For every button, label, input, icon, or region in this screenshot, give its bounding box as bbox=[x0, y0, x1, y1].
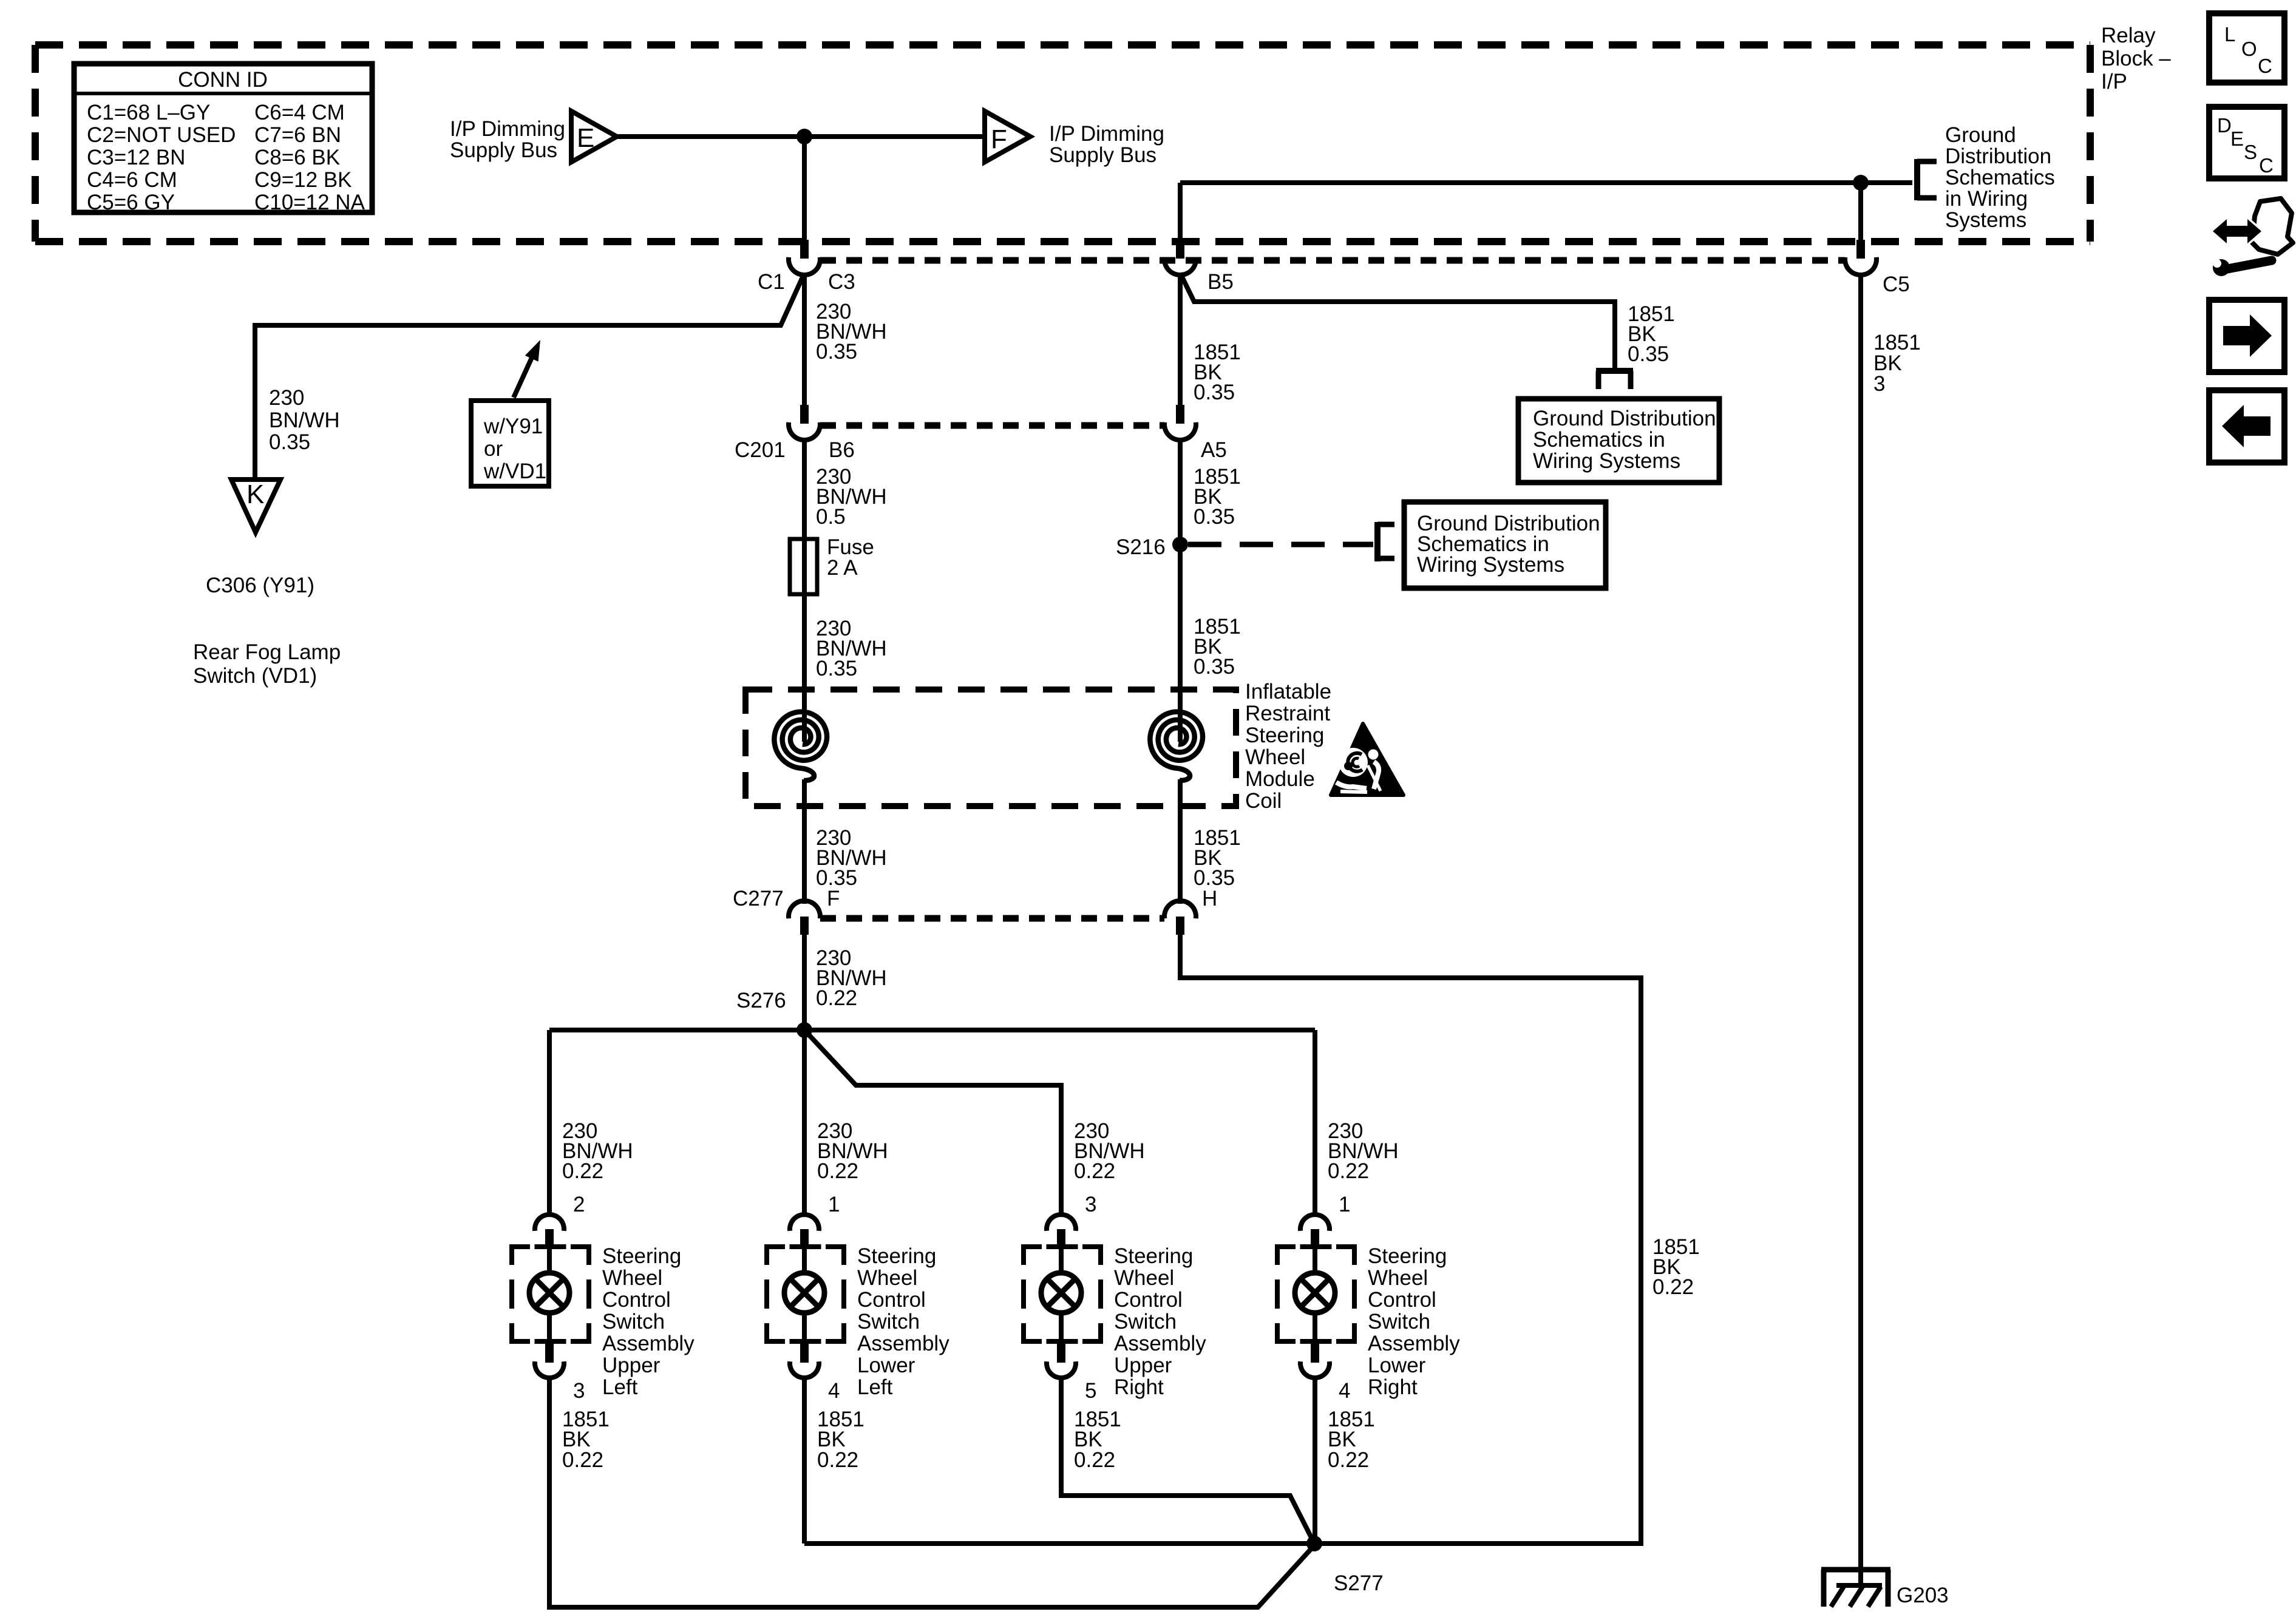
svg-text:0.22: 0.22 bbox=[817, 1448, 858, 1472]
svg-text:C4=6 CM: C4=6 CM bbox=[87, 168, 177, 192]
svg-text:Supply Bus: Supply Bus bbox=[450, 138, 557, 162]
svg-text:3: 3 bbox=[1873, 372, 1885, 396]
svg-text:0.22: 0.22 bbox=[816, 986, 857, 1010]
svg-text:Block –: Block – bbox=[2101, 47, 2171, 70]
svg-text:E: E bbox=[2230, 127, 2244, 150]
svg-text:S276: S276 bbox=[736, 989, 786, 1012]
svg-text:Lower: Lower bbox=[857, 1354, 915, 1377]
svg-text:Assembly: Assembly bbox=[1114, 1332, 1206, 1355]
svg-text:I/P Dimming: I/P Dimming bbox=[450, 117, 565, 141]
svg-text:Left: Left bbox=[602, 1375, 638, 1399]
svg-text:0.35: 0.35 bbox=[1628, 342, 1669, 366]
svg-text:Schematics: Schematics bbox=[1945, 166, 2055, 189]
svg-text:C277: C277 bbox=[733, 887, 784, 910]
svg-text:Rear Fog Lamp: Rear Fog Lamp bbox=[193, 640, 341, 664]
svg-text:C: C bbox=[2258, 55, 2272, 77]
svg-text:I/P Dimming: I/P Dimming bbox=[1049, 122, 1164, 146]
svg-text:0.22: 0.22 bbox=[1074, 1448, 1115, 1472]
svg-text:Wheel: Wheel bbox=[857, 1266, 917, 1290]
svg-text:Switch (VD1): Switch (VD1) bbox=[193, 664, 317, 688]
svg-text:Lower: Lower bbox=[1368, 1354, 1426, 1377]
svg-text:Control: Control bbox=[1114, 1288, 1183, 1312]
svg-text:S277: S277 bbox=[1334, 1571, 1384, 1595]
svg-text:C9=12 BK: C9=12 BK bbox=[254, 168, 352, 192]
svg-text:3: 3 bbox=[573, 1379, 585, 1403]
svg-text:C7=6 BN: C7=6 BN bbox=[254, 123, 341, 147]
svg-text:B6: B6 bbox=[829, 438, 855, 462]
svg-text:Switch: Switch bbox=[1114, 1310, 1177, 1334]
svg-text:Steering: Steering bbox=[857, 1244, 936, 1268]
svg-text:C306 (Y91): C306 (Y91) bbox=[206, 574, 314, 597]
svg-text:0.22: 0.22 bbox=[817, 1159, 858, 1183]
svg-text:Supply Bus: Supply Bus bbox=[1049, 143, 1156, 167]
svg-text:F: F bbox=[827, 887, 840, 910]
svg-text:Steering: Steering bbox=[1245, 724, 1324, 747]
svg-text:Right: Right bbox=[1368, 1375, 1418, 1399]
svg-text:in Wiring: in Wiring bbox=[1945, 187, 2028, 211]
svg-text:C201: C201 bbox=[735, 438, 786, 462]
svg-text:Ground: Ground bbox=[1945, 123, 2016, 147]
svg-text:CONN ID: CONN ID bbox=[178, 68, 268, 92]
svg-text:4: 4 bbox=[828, 1379, 840, 1403]
svg-text:2 A: 2 A bbox=[827, 556, 858, 580]
svg-text:Relay: Relay bbox=[2101, 24, 2156, 47]
svg-text:C: C bbox=[2259, 154, 2274, 177]
svg-text:Switch: Switch bbox=[602, 1310, 665, 1334]
svg-text:C3=12 BN: C3=12 BN bbox=[87, 146, 185, 169]
svg-text:230: 230 bbox=[269, 386, 304, 410]
svg-text:C10=12 NA: C10=12 NA bbox=[254, 191, 365, 214]
svg-text:E: E bbox=[577, 123, 594, 153]
svg-text:2: 2 bbox=[573, 1193, 585, 1216]
svg-text:0.5: 0.5 bbox=[816, 505, 846, 529]
svg-text:4: 4 bbox=[1339, 1379, 1350, 1403]
svg-text:3: 3 bbox=[1085, 1193, 1096, 1216]
svg-text:C3: C3 bbox=[828, 270, 855, 294]
svg-text:S216: S216 bbox=[1116, 535, 1166, 559]
svg-text:Assembly: Assembly bbox=[1368, 1332, 1460, 1355]
svg-text:0.22: 0.22 bbox=[1328, 1159, 1369, 1183]
svg-text:Wiring Systems: Wiring Systems bbox=[1417, 553, 1564, 577]
svg-text:Assembly: Assembly bbox=[857, 1332, 949, 1355]
svg-text:C1: C1 bbox=[758, 270, 785, 294]
svg-text:I/P: I/P bbox=[2101, 70, 2127, 93]
svg-text:0.35: 0.35 bbox=[816, 340, 857, 364]
svg-text:Upper: Upper bbox=[602, 1354, 661, 1377]
svg-text:Coil: Coil bbox=[1245, 789, 1282, 813]
svg-text:Systems: Systems bbox=[1945, 208, 2026, 232]
svg-text:Wheel: Wheel bbox=[1245, 745, 1305, 769]
svg-text:0.22: 0.22 bbox=[1074, 1159, 1115, 1183]
svg-text:w/Y91: w/Y91 bbox=[483, 415, 543, 438]
svg-text:L: L bbox=[2224, 23, 2235, 46]
svg-text:G203: G203 bbox=[1897, 1584, 1949, 1607]
svg-text:Control: Control bbox=[857, 1288, 926, 1312]
svg-text:S: S bbox=[2244, 141, 2257, 163]
svg-text:0.35: 0.35 bbox=[269, 430, 310, 454]
svg-text:Steering: Steering bbox=[1114, 1244, 1193, 1268]
svg-text:O: O bbox=[2241, 38, 2257, 60]
svg-text:Restraint: Restraint bbox=[1245, 702, 1330, 725]
svg-text:0.35: 0.35 bbox=[1194, 655, 1235, 679]
svg-text:0.22: 0.22 bbox=[1652, 1275, 1694, 1299]
svg-text:BN/WH: BN/WH bbox=[269, 408, 340, 432]
svg-text:B5: B5 bbox=[1207, 270, 1234, 294]
svg-text:1: 1 bbox=[1339, 1193, 1350, 1216]
svg-text:1: 1 bbox=[828, 1193, 840, 1216]
svg-text:Wheel: Wheel bbox=[1368, 1266, 1428, 1290]
svg-text:Assembly: Assembly bbox=[602, 1332, 695, 1355]
svg-text:Distribution: Distribution bbox=[1945, 144, 2051, 168]
svg-text:Ground Distribution: Ground Distribution bbox=[1533, 407, 1716, 430]
svg-text:Wiring Systems: Wiring Systems bbox=[1533, 449, 1680, 473]
svg-text:0.22: 0.22 bbox=[562, 1159, 603, 1183]
svg-text:Wheel: Wheel bbox=[1114, 1266, 1174, 1290]
svg-text:Module: Module bbox=[1245, 767, 1315, 791]
svg-text:Wheel: Wheel bbox=[602, 1266, 662, 1290]
svg-text:Switch: Switch bbox=[857, 1310, 920, 1334]
svg-text:F: F bbox=[991, 124, 1007, 154]
svg-text:C8=6 BK: C8=6 BK bbox=[254, 146, 340, 169]
svg-text:C2=NOT USED: C2=NOT USED bbox=[87, 123, 236, 147]
svg-text:C5: C5 bbox=[1883, 273, 1910, 296]
svg-text:C1=68 L–GY: C1=68 L–GY bbox=[87, 101, 210, 124]
svg-text:0.35: 0.35 bbox=[1194, 381, 1235, 404]
svg-text:Left: Left bbox=[857, 1375, 893, 1399]
svg-text:Upper: Upper bbox=[1114, 1354, 1172, 1377]
svg-text:Control: Control bbox=[1368, 1288, 1436, 1312]
svg-text:0.35: 0.35 bbox=[1194, 505, 1235, 529]
svg-text:C6=4 CM: C6=4 CM bbox=[254, 101, 345, 124]
svg-text:Steering: Steering bbox=[602, 1244, 681, 1268]
svg-text:w/VD1: w/VD1 bbox=[483, 459, 546, 483]
svg-text:5: 5 bbox=[1085, 1379, 1096, 1403]
svg-text:Control: Control bbox=[602, 1288, 671, 1312]
svg-text:Inflatable: Inflatable bbox=[1245, 680, 1331, 703]
svg-text:Steering: Steering bbox=[1368, 1244, 1447, 1268]
svg-text:0.35: 0.35 bbox=[816, 657, 857, 680]
svg-text:Schematics in: Schematics in bbox=[1533, 428, 1665, 452]
svg-text:C5=6 GY: C5=6 GY bbox=[87, 191, 175, 214]
svg-text:Switch: Switch bbox=[1368, 1310, 1430, 1334]
svg-text:0.22: 0.22 bbox=[1328, 1448, 1369, 1472]
svg-text:D: D bbox=[2217, 114, 2232, 137]
svg-text:H: H bbox=[1202, 887, 1217, 910]
svg-text:Right: Right bbox=[1114, 1375, 1164, 1399]
svg-text:or: or bbox=[484, 437, 503, 461]
svg-text:A5: A5 bbox=[1201, 438, 1227, 462]
svg-text:0.22: 0.22 bbox=[562, 1448, 603, 1472]
svg-text:K: K bbox=[246, 480, 264, 509]
